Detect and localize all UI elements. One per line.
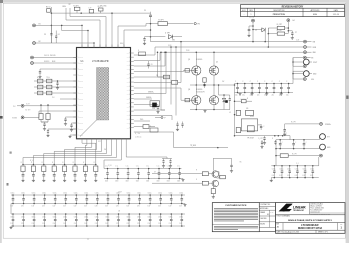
capacitor C51r right bank [281,166,283,171]
ground row1 col6 [84,179,86,180]
svg-text:2.5V: 2.5V [169,223,172,225]
wire E2 to pin x94 [36,42,95,44]
svg-text:C100u: C100u [279,168,283,170]
svg-text:VOSNS: VOSNS [12,118,17,120]
capacitor C13 input bypass [258,84,260,88]
svg-text:R: R [272,138,273,140]
capacitor C2 on top rail [89,9,93,13]
ground row1 col3 [53,179,55,180]
wire jack group 2 [293,70,303,72]
svg-text:COUT: COUT [118,192,122,194]
wire out bus lower [276,148,319,150]
capacitor C21 row1 [32,172,34,175]
wire bottom fan 4 [65,142,97,165]
wire bottom fan 7 [33,142,111,165]
wire bottom fan 1 [82,142,96,165]
svg-text:2.5V: 2.5V [42,223,45,225]
approvals column box [259,203,275,232]
wire jack group 1 [293,57,303,59]
svg-text:PGOOD: PGOOD [79,123,84,125]
svg-text:SIZE: SIZE [276,223,279,225]
resistor R8 gate Q3 [185,98,190,101]
svg-text:C330u: C330u [74,217,78,219]
revision history table [241,5,345,17]
resistor R28 strip low [150,128,158,132]
svg-text:C5: C5 [144,10,146,12]
ground row1R [182,179,184,180]
resistor R24 row1 [63,166,67,172]
wire bundle vertical c [175,47,177,116]
zone letter mark left border [10,152,12,154]
svg-text:6.3V: 6.3V [32,205,35,207]
svg-text:RUN: RUN [63,6,66,8]
svg-text:C330u: C330u [126,217,130,219]
wire pin111 rail [39,110,77,112]
diode D2 branch [151,36,166,38]
turret E11 PGOOD [31,56,34,59]
svg-text:R_OPT: R_OPT [277,30,282,32]
wire pin y99 net stub [134,98,152,100]
svg-text:VIN: VIN [127,127,129,129]
svg-text:6.3V: 6.3V [303,175,306,177]
svg-text:22u: 22u [242,94,245,96]
svg-text:R_OPT: R_OPT [277,24,282,26]
wire pin y126.5 with resistor R15 [134,126,143,128]
inductor L1 box [236,110,240,115]
ground power stage [204,110,206,111]
capacitor C16 input bypass [280,84,282,88]
svg-text:C330u: C330u [42,217,46,219]
capacitor C46 row2 [75,195,77,199]
wire right bank tie up [318,157,320,166]
banana jack J4 [320,144,326,150]
svg-text:L1 0.56uH: L1 0.56uH [240,99,246,101]
svg-text:VTT: VTT [327,137,330,139]
wire SW bus [190,84,235,86]
capacitor C64 row3 [54,214,56,219]
svg-text:PGOOD: PGOOD [79,63,84,65]
svg-text:C7: C7 [295,32,297,34]
wire pin y82.5 with resistor R14 [134,82,172,84]
U1 exposed pad tie line [80,120,97,137]
page margin shading top [0,0,349,3]
svg-text:6.3V: 6.3V [53,205,56,207]
U1 bottom pin stubs [81,139,83,142]
banana jack J1 VOUT [303,59,309,65]
svg-text:VIN: VIN [127,78,129,80]
svg-text:0603: 0603 [167,181,170,183]
wire drain feed Q2 [213,52,215,66]
wire Q4 source to ground bus [213,105,215,110]
wire pin x106 fan [70,8,106,48]
wire CT stub [166,157,168,159]
resistor R3 top rail right [98,8,103,11]
capacitor C616 row3 [181,214,183,219]
svg-text:0603: 0603 [177,181,180,183]
wire chain top tee [213,157,231,159]
turret E14 [21,116,24,119]
svg-text:C330u: C330u [105,217,109,219]
capacitor C68 row3 [96,214,98,219]
wire row2 bottom bus [11,203,185,205]
capacitor C53r right bank [296,166,298,171]
wire input cap bus top [235,83,294,85]
resistor R16 feedback row1 [34,80,77,82]
wire right bank bottom bus [271,177,319,179]
svg-text:R: R [21,162,22,164]
svg-text:C: C [250,81,251,83]
wire row1R bottom bus [104,178,182,180]
wire pin x124 to center column [124,30,151,48]
svg-text:C: C [282,142,283,144]
wire rail C drop to U1 pin [134,52,160,60]
svg-text:C 1u: C 1u [136,166,139,168]
svg-text:DESCRIPTION: DESCRIPTION [273,10,285,12]
capacitor C9 snubber2 [229,95,231,99]
capacitor C6 input bypass [248,26,250,29]
svg-text:VIN: VIN [127,86,129,88]
resistor R18 feedback row3 [34,92,77,94]
svg-text:2.5V: 2.5V [179,223,182,225]
snubber resistor R9 [203,78,206,82]
svg-text:R_OPT: R_OPT [74,5,79,7]
node junction VIN divider [51,25,53,27]
test point TP1 [194,23,196,25]
capacitor C4 between rails [55,31,57,37]
wire E14 to divider [38,111,40,117]
svg-text:2.5V: 2.5V [84,223,87,225]
svg-text:PGOOD: PGOOD [44,55,49,57]
wire gate rail BG [184,99,192,101]
svg-text:CB: CB [118,211,120,213]
resistor R17 feedback row2 [34,86,77,88]
svg-text:C100u: C100u [105,192,109,194]
capacitor C20 INTVCC [72,122,77,124]
svg-text:C 1u: C 1u [115,166,118,168]
turret E13 [21,104,24,107]
capacitor C55r right bank [312,166,314,171]
svg-text:C330u: C330u [10,217,14,219]
svg-text:VIN: VIN [127,107,129,109]
svg-text:22u: 22u [235,94,238,96]
capacitor C12 input bypass [251,84,253,88]
svg-text:R_OPT: R_OPT [292,153,297,155]
wire drain feed Q1 [195,52,197,66]
svg-text:VIN: VIN [313,42,316,44]
svg-text:E4: E4 [293,20,295,22]
svg-text:0603: 0603 [136,181,139,183]
svg-text:A4: A4 [277,226,279,229]
svg-text:C4: C4 [58,34,60,36]
capacitor C50r right bank [273,166,275,171]
capacitor C7 at E4 [291,31,293,33]
svg-text:VIN: VIN [127,119,129,121]
svg-text:2.5V: 2.5V [10,223,13,225]
svg-text:2.5V: 2.5V [63,223,66,225]
wire pin x118 to center column [118,24,151,48]
capacitor C410 row2 [118,195,120,199]
wire center column vertical [150,20,152,42]
ground row2 right end [184,204,186,205]
svg-text:VIN: VIN [127,98,129,100]
capacitor C37 row1R [179,169,181,173]
svg-text:6.3V: 6.3V [169,205,172,207]
svg-text:C330u: C330u [179,217,183,219]
capacitor C10 input bypass [237,84,239,88]
svg-text:C100u: C100u [42,192,46,194]
wire bundle vertical c2 [170,47,172,105]
svg-text:C330u: C330u [21,217,25,219]
capacitor C20 row1 [22,172,24,175]
U1 left pin stubs [73,57,76,59]
svg-text:C100u: C100u [148,192,152,194]
solid pad mark [225,100,228,103]
svg-text:TP1: TP1 [197,24,200,26]
capacitor C12 sense [260,124,262,126]
wire loop vertical join [267,28,269,34]
wire VOUT rise to sense block [289,136,291,140]
turret E7 GND on rail [304,51,307,54]
svg-text:0603: 0603 [146,181,149,183]
ground divider [44,128,46,129]
wire sense cap ties [258,124,261,126]
svg-text:MM: MM [267,214,269,216]
svg-text:Phone: (408)432-1900: Phone: (408)432-1900 [310,208,324,210]
svg-text:RJK0305: RJK0305 [196,59,202,61]
capacitor C27 row1 [95,172,97,175]
svg-text:C: C [264,81,265,83]
turret E1 VIN sense [33,24,36,27]
svg-text:VCC: VCC [98,141,101,143]
svg-text:C100u: C100u [295,168,299,170]
svg-text:LTC3816EUHF: LTC3816EUHF [301,223,319,227]
wire TG from U1 [134,71,184,72]
wire E4 down [287,22,289,34]
wire jacks feed down [292,79,294,84]
capacitor C66 row3 [75,214,77,219]
wire bundle vertical b [160,52,166,93]
ground row3 left end [10,226,12,227]
title block outer box [276,203,346,234]
customer notice box [212,203,259,232]
svg-text:C_SS 0.1u: C_SS 0.1u [135,137,142,139]
svg-text:E2: E2 [39,41,41,43]
svg-text:C330u: C330u [63,217,67,219]
capacitor C60 row3 [12,214,14,219]
svg-text:E8: E8 [311,58,313,60]
capacitor C13 below VOUT bus [264,136,266,138]
svg-text:C100u: C100u [158,192,162,194]
resistor R20 vertical divider b [47,105,49,114]
svg-text:C 1u: C 1u [177,166,180,168]
svg-text:1: 1 [251,14,252,16]
wire gate rail TG [184,70,192,72]
svg-text:VIN: VIN [127,123,129,125]
resistor R21 base Q5 [195,173,202,175]
svg-text:RUN/SS: RUN/SS [44,61,49,63]
svg-text:C: C [295,142,296,144]
capacitor C52r right bank [289,166,291,171]
zone tick bottom border [87,238,89,240]
capacitor C24 chain [231,158,233,162]
svg-text:6.3V: 6.3V [295,175,298,177]
capacitor C28 strip [148,61,150,64]
capacitor C613 row3 [149,214,151,219]
wire bundle vertical a [161,52,165,110]
solid component D5 [152,103,157,108]
svg-text:PGOOD: PGOOD [79,69,84,71]
wire bottom fan 9 [104,142,121,169]
transistor Q3 bottom MOSFET [192,96,201,105]
svg-text:2.5V: 2.5V [158,223,161,225]
wire pin y132 long to lower network [134,132,228,148]
svg-text:C330u: C330u [32,217,36,219]
wire chain emitter down [212,187,214,189]
wire snubber2 tie to SW [218,85,220,95]
svg-text:PGOOD: PGOOD [79,87,84,89]
svg-text:VIN: VIN [127,53,129,55]
capacitor C36 row1R [168,169,170,173]
wire snubber [204,84,206,86]
svg-text:6.3V: 6.3V [95,205,98,207]
svg-text:R: R [150,126,151,128]
svg-text:6.3V: 6.3V [21,205,24,207]
wire row2-row3 tie [10,204,12,215]
ground chain [212,194,214,196]
svg-text:C100u: C100u [287,168,291,170]
capacitor C22 CT a [162,158,172,160]
wire D1 down to rail A [264,30,266,42]
svg-text:R: R [73,162,74,164]
wire pin y93.5 net stub [134,93,160,95]
svg-text:6.3V: 6.3V [42,205,45,207]
turret E15 VOSNS [320,122,323,125]
capacitor C29 strip low [177,122,179,125]
svg-text:E_ITH: E_ITH [26,103,30,105]
svg-text:C 1u: C 1u [157,166,160,168]
svg-text:VFB: VFB [152,108,155,110]
svg-text:C: C [257,81,258,83]
capacitor C14 input bypass [266,84,268,88]
capacitor C45 row2 [65,195,67,199]
resistor R26 row1 [83,166,87,172]
capacitor C31r between out buses [293,140,295,144]
ground row1 col5 [74,179,76,180]
svg-text:2.5V: 2.5V [116,223,119,225]
zone tick left border [0,116,3,119]
wire pin x94 up [93,43,95,48]
svg-text:PGOOD: PGOOD [79,129,84,131]
capacitor C67 row3 [86,214,88,219]
svg-text:6.3V: 6.3V [148,205,151,207]
svg-text:VIN: VIN [127,94,129,96]
wire row2 top bus [11,194,185,196]
capacitor C65 row3 [65,214,67,219]
wire bottom fan 10 [126,142,167,157]
wire input cap bus bottom [235,92,294,94]
turret E10 [303,78,306,81]
wire VOUT bus [235,135,291,137]
svg-text:VIN: VIN [127,61,129,63]
resistor R4 branch right [151,23,159,25]
svg-text:C100u: C100u [310,168,314,170]
wire Q4 drain up [213,85,215,96]
svg-text:2.5V: 2.5V [137,223,140,225]
svg-text:SHEET 1 OF 1: SHEET 1 OF 1 [318,232,328,234]
wire bottom fan 3 [75,142,92,165]
capacitor C412 row2 [139,195,141,199]
svg-text:R: R [83,162,84,164]
svg-text:TP_VOUT: TP_VOUT [247,138,254,140]
svg-text:R_OPT: R_OPT [159,20,164,22]
svg-text:Q2: Q2 [216,61,218,63]
address block lines [309,203,311,215]
svg-text:R: R [31,162,32,164]
svg-text:0603: 0603 [105,181,108,183]
capacitor C48 row2 [96,195,98,199]
capacitor C18 divider [44,122,46,124]
zone letter mark lower left [7,183,9,186]
junction center column [150,23,152,25]
U1 exposed pad hatch [97,68,109,121]
resistor R1 top-left with node label [47,9,51,13]
svg-text:CB: CB [156,75,158,77]
capacitor C21 lower left [48,128,77,130]
svg-text:CB: CB [151,64,153,66]
svg-text:C: C [286,81,287,83]
svg-text:R: R [247,98,248,100]
wire pin y110 net stub [134,109,165,111]
wire pin y115.5 stub [134,116,172,121]
wire pin x100 fan [66,8,100,48]
wire Q5 Q6 collector chain [217,172,219,178]
svg-text:C100u: C100u [303,168,307,170]
svg-text:VIN: VIN [127,115,129,117]
svg-text:C3: C3 [44,34,46,36]
capacitor C23 row1 [53,172,55,175]
svg-text:6.3V: 6.3V [310,175,313,177]
resistor R2 on top rail [74,7,80,10]
svg-text:R: R [138,50,139,52]
wire SW node Q2 [213,75,215,85]
resistor R25 [280,154,288,158]
svg-text:6.3V: 6.3V [179,205,182,207]
svg-text:RUN: RUN [52,61,55,63]
svg-text:VIN: VIN [127,102,129,104]
capacitor C30 row1R [107,169,109,173]
turret E9 [303,65,306,68]
resistor R24 bottom [211,189,215,194]
resistor R27 strip [150,101,160,106]
capacitor C15 input bypass [273,84,275,88]
wire sense kelvin loop [241,119,257,131]
svg-text:2.5V: 2.5V [126,223,129,225]
capacitor C62 row3 [33,214,35,219]
svg-text:RJK0330DPB: RJK0330DPB [196,92,205,94]
svg-text:0603: 0603 [157,181,160,183]
svg-text:22u: 22u [286,94,289,96]
svg-text:PGOOD: PGOOD [79,99,84,101]
svg-text:C330u: C330u [53,217,57,219]
wire diode top tie [219,94,230,96]
wire pin x112 to top rail [111,13,113,47]
turret E8 VOSNS+ [303,56,306,59]
capacitor C17 input bypass [288,84,290,88]
svg-text:ITH: ITH [52,97,54,99]
wire row3 bottom bus [11,225,185,227]
capacitor C30 strip low [182,122,184,125]
svg-text:2.5V: 2.5V [74,223,77,225]
